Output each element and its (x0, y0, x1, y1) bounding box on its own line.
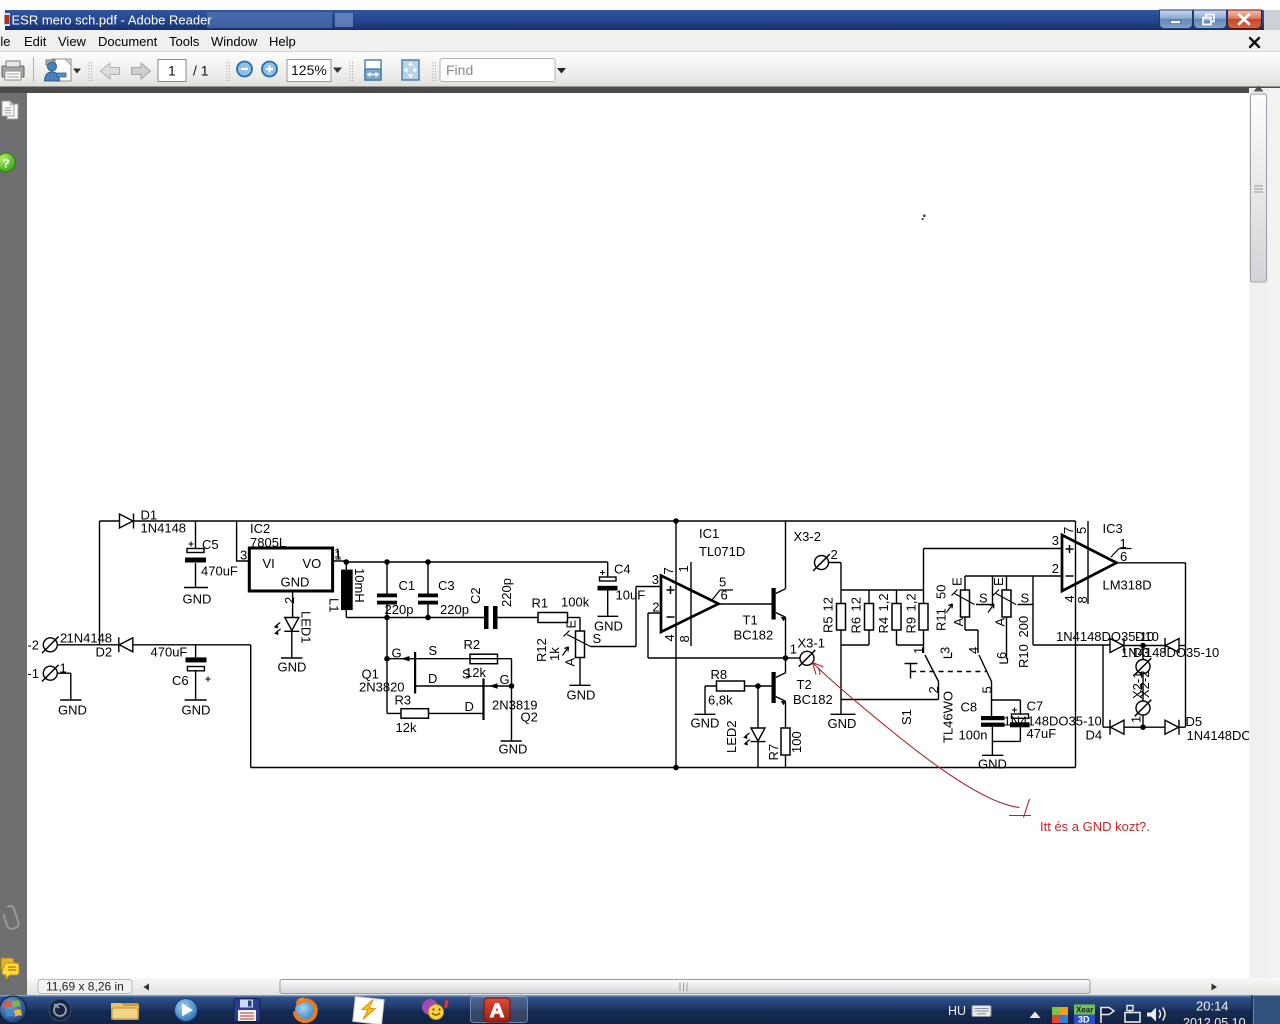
resistor R1 (538, 613, 580, 623)
node junction bridge top at X2-2 (1140, 643, 1146, 649)
svg-text:11,69 x 8,26 in: 11,69 x 8,26 in (46, 980, 124, 994)
svg-text:BC182: BC182 (734, 628, 774, 643)
wire IC1 output pin 6 (719, 603, 772, 605)
svg-text:1k: 1k (547, 647, 562, 661)
capacitor C7 (1010, 708, 1030, 742)
svg-text:S: S (1021, 591, 1030, 606)
resistor R3 (387, 659, 484, 719)
ground below C6 (185, 699, 207, 701)
svg-text:GND: GND (182, 703, 211, 718)
capacitor C1 (377, 562, 397, 618)
svg-text:VO: VO (303, 556, 322, 571)
svg-text:1N4148DO35-10: 1N4148DO35-10 (1004, 714, 1102, 729)
wire IC2 input stub (237, 521, 250, 561)
svg-text:2: 2 (1052, 561, 1059, 576)
wire IC1 power pins 7 and 4 (675, 521, 677, 768)
svg-text:GND: GND (567, 688, 596, 703)
svg-text:LM318D: LM318D (1103, 578, 1152, 593)
svg-text:C7: C7 (1027, 699, 1044, 714)
svg-text:20:14: 20:14 (1196, 999, 1229, 1014)
terminal X1-1 (42, 665, 71, 700)
wire IC3 pins 5 and 8 stub (1087, 521, 1089, 604)
svg-text:470uF: 470uF (201, 564, 238, 579)
document area (0, 93, 27, 995)
svg-text:10mH: 10mH (352, 568, 367, 603)
svg-text:2012.05.10: 2012.05.10 (1183, 1016, 1246, 1024)
wire bridge left edge (1102, 645, 1104, 727)
svg-text:T2: T2 (797, 677, 812, 692)
resistor R4 (892, 590, 924, 645)
svg-text:X3-2: X3-2 (794, 529, 821, 544)
svg-text:R6: R6 (849, 617, 864, 634)
svg-text:S1: S1 (899, 709, 914, 725)
svg-text:1: 1 (790, 642, 797, 657)
svg-text:View: View (58, 34, 87, 49)
svg-text:E: E (564, 620, 579, 629)
capacitor C2 (484, 606, 538, 629)
svg-text:100: 100 (789, 731, 804, 753)
wire X3-2 to divider rail (829, 563, 842, 591)
svg-text:12: 12 (849, 597, 864, 611)
svg-text:4: 4 (662, 634, 677, 641)
svg-text:1N4148: 1N4148 (141, 521, 187, 536)
transistor T1 BC182 (772, 521, 786, 658)
wire IC2 output pin 1 (333, 561, 347, 570)
trimmer R10 (988, 576, 1016, 659)
svg-text:D2: D2 (96, 645, 113, 660)
svg-text:1,2: 1,2 (876, 593, 891, 611)
wire Q1 source to Q2 gate node (511, 659, 513, 686)
svg-text:T1: T1 (743, 613, 758, 628)
svg-text:R1: R1 (532, 596, 549, 611)
svg-text:Itt és a GND kozt?.: Itt és a GND kozt?. (1040, 819, 1150, 834)
diode D4 (1110, 720, 1124, 735)
wire R11 wiper to pin2 rail (976, 576, 993, 605)
svg-text:A: A (993, 618, 1008, 627)
svg-text:E: E (991, 577, 1006, 586)
vertical scrollbar (1249, 88, 1268, 978)
svg-text:R5: R5 (821, 616, 836, 633)
node junction C1 bottom (384, 615, 390, 621)
diode D3 (1110, 638, 1124, 653)
wire R11 bottom to switch contact 4 (965, 617, 978, 653)
wire divider top rail (841, 589, 924, 591)
transistor T2 BC182 (772, 658, 786, 728)
diode D5 (1165, 720, 1179, 735)
wire node to X3-1 terminal (786, 657, 801, 659)
svg-text:7805L: 7805L (250, 535, 286, 550)
svg-text:X3-1: X3-1 (798, 636, 825, 651)
diode D1 (120, 514, 134, 529)
inductor L1 (341, 570, 353, 618)
ground below R8 (695, 713, 716, 715)
svg-text:G: G (392, 646, 402, 661)
ground below Q2 (501, 740, 522, 742)
node junction Q2 gate (509, 683, 515, 689)
svg-text:GND: GND (278, 660, 307, 675)
terminal X1-2 (42, 637, 119, 654)
svg-text:S: S (429, 643, 438, 658)
terminal X3-1 (799, 650, 816, 667)
wire D10 to output edge (1179, 645, 1186, 647)
node junction IC1 pin 4 at bottom rail (673, 765, 679, 771)
wire IC2 ground pin 2 stub (292, 591, 294, 618)
node junction at C1 top (384, 559, 390, 565)
svg-text:1: 1 (334, 546, 341, 561)
ground below C4 (598, 615, 619, 617)
svg-text:3: 3 (938, 647, 953, 654)
resistor R6 (841, 590, 874, 645)
node junction bridge bottom at X2-1 (1140, 724, 1146, 730)
node junction IC1 supply on +V rail (673, 518, 679, 524)
ground below LED1 (281, 657, 303, 659)
svg-text:200: 200 (1016, 616, 1031, 638)
wire switch pole 1 return to ground line (841, 699, 939, 701)
svg-text:12k: 12k (396, 720, 417, 735)
capacitor C4 (598, 562, 618, 616)
svg-text:3: 3 (1052, 533, 1059, 548)
svg-text:50: 50 (934, 585, 949, 599)
svg-text:8: 8 (677, 635, 692, 642)
pin stub IC1 pins 5/6 (712, 590, 733, 600)
pin stub IC3 pins 1/6 (1111, 549, 1132, 558)
svg-text:220p: 220p (499, 578, 514, 607)
svg-text:R9: R9 (904, 617, 919, 634)
svg-text:GND: GND (978, 757, 1007, 772)
trimmer R11 (947, 576, 975, 617)
svg-text:2: 2 (652, 600, 659, 615)
status bar (27, 978, 1280, 995)
svg-text:1: 1 (60, 661, 67, 676)
svg-text:R3: R3 (395, 693, 412, 708)
svg-text:1: 1 (168, 63, 176, 79)
tiny ink speck on page (922, 214, 926, 220)
wire +V top rail (100, 520, 1076, 522)
svg-text:6: 6 (1120, 549, 1127, 564)
svg-text:2: 2 (831, 547, 838, 562)
svg-text:?: ? (2, 157, 9, 171)
svg-text:125%: 125% (291, 62, 327, 78)
resistor R8 (705, 681, 772, 714)
svg-text:A: A (951, 618, 966, 627)
node junction R8 / T2 base / LED2 (755, 683, 761, 689)
ground below C8 C7 (982, 754, 1004, 756)
svg-text:VI: VI (263, 556, 275, 571)
sidebar icons (0, 101, 19, 979)
svg-text:3: 3 (240, 548, 247, 563)
capacitor C5 (185, 521, 206, 587)
LED LED1 (274, 618, 300, 659)
toolbar icons (2, 57, 566, 82)
ground below R5 (831, 713, 856, 715)
svg-text:GND: GND (828, 716, 857, 731)
svg-text:C5: C5 (202, 537, 219, 552)
svg-text:IC1: IC1 (699, 526, 719, 541)
svg-text:S: S (979, 591, 988, 606)
svg-text:R8: R8 (711, 667, 728, 682)
JFET Q1 2N3820 (384, 618, 511, 694)
svg-text:D4: D4 (1086, 728, 1103, 743)
svg-text:2: 2 (926, 686, 941, 693)
svg-text:IC3: IC3 (1103, 521, 1123, 536)
svg-text:Q2: Q2 (521, 710, 538, 725)
svg-text:6: 6 (994, 652, 1009, 659)
svg-text:8: 8 (1075, 596, 1090, 603)
wire switch pole 2 to C8 (992, 700, 1021, 716)
svg-text:X2-1: X2-1 (1130, 672, 1145, 699)
svg-text:TL46WO: TL46WO (941, 691, 956, 743)
svg-text:D5: D5 (1186, 714, 1203, 729)
svg-text:A: A (563, 658, 578, 667)
svg-text:D: D (428, 671, 437, 686)
switch S1 contact 3 stub (944, 653, 952, 658)
svg-text:LED1: LED1 (299, 611, 314, 644)
wire D5 to output edge (1179, 726, 1186, 728)
svg-text:R4: R4 (876, 617, 891, 634)
wire bridge bottom segments (1103, 726, 1165, 728)
svg-text:1: 1 (1129, 716, 1144, 723)
svg-text:R11: R11 (934, 608, 949, 631)
wire +5V rail (346, 561, 607, 563)
svg-text:100k: 100k (561, 595, 590, 610)
svg-text:D10: D10 (1135, 629, 1159, 644)
svg-text:C6: C6 (172, 673, 189, 688)
svg-text:3: 3 (652, 572, 659, 587)
svg-text:220p: 220p (440, 602, 469, 617)
svg-text:GND: GND (281, 575, 310, 590)
svg-text:C8: C8 (961, 700, 978, 715)
svg-text:C3: C3 (438, 578, 455, 593)
svg-text:1,2: 1,2 (904, 593, 919, 611)
svg-text:D3: D3 (1133, 645, 1150, 660)
svg-text:Help: Help (269, 34, 296, 49)
svg-text:1N4148: 1N4148 (67, 631, 113, 646)
svg-text:Window: Window (211, 34, 258, 49)
svg-text:5: 5 (1074, 527, 1089, 534)
wire IC3 pin 2 feedback rail (965, 575, 1062, 577)
wire left drop from D1 anode to input node (99, 521, 101, 645)
svg-text:R10: R10 (1016, 644, 1031, 668)
svg-text:GND: GND (58, 703, 87, 718)
op-amp IC1 TL071D (661, 576, 719, 633)
switch S1 pole 2 (979, 655, 992, 700)
svg-text:2: 2 (282, 597, 297, 604)
resistor R9 (919, 549, 928, 654)
svg-text:470uF: 470uF (151, 645, 188, 660)
diode D10 (1165, 638, 1179, 653)
wire IC3 output pin 6 (1117, 563, 1186, 727)
svg-text:1: 1 (676, 565, 691, 572)
trimmer R12 (563, 618, 591, 686)
node junction C3 bottom (425, 615, 431, 621)
switch S1 contact 6 stub (1000, 658, 1008, 663)
diode D2 (119, 637, 251, 652)
svg-text:10uF: 10uF (616, 588, 646, 603)
wire ground bottom rail (251, 645, 1076, 768)
wire IC1 pins 1 and 8 stub (690, 562, 692, 646)
svg-text:ESR mero sch.pdf - Adobe Reade: ESR mero sch.pdf - Adobe Reader (12, 13, 213, 28)
capacitor C3 (418, 562, 438, 618)
ground below R12 (570, 684, 591, 686)
svg-text:File: File (0, 34, 10, 49)
svg-text:Document: Document (98, 34, 158, 49)
svg-text:Xear: Xear (1076, 1006, 1093, 1015)
svg-text:E: E (950, 577, 965, 586)
wire IC3 pin 3 to R9 (924, 548, 1063, 550)
svg-text:R7: R7 (766, 744, 781, 761)
svg-text:LED2: LED2 (724, 720, 739, 753)
svg-text:4: 4 (966, 647, 981, 654)
svg-text:Find: Find (446, 62, 473, 78)
svg-text:IC2: IC2 (250, 521, 270, 536)
wire IC3 power pins 7 and 4 (1075, 521, 1077, 768)
op-amp IC3 LM318D (1062, 535, 1117, 591)
svg-text:GND: GND (499, 742, 528, 757)
svg-text:C4: C4 (614, 562, 631, 577)
wire R12 wiper to IC1 pin 3 (591, 587, 662, 647)
node junction at C3 top (425, 559, 431, 565)
svg-text:TL071D: TL071D (699, 544, 745, 559)
JFET Q2 2N3819 (415, 679, 511, 741)
terminal X2-1 (1135, 674, 1152, 728)
svg-text:D: D (465, 699, 474, 714)
svg-text:GND: GND (594, 619, 623, 634)
node junction at L1 top (344, 559, 350, 565)
node junction X3-1 / T1 emitter / T2 collector / feedback (783, 655, 789, 661)
resistor R7 (781, 728, 790, 768)
switch S1 pole 1 (925, 655, 939, 700)
ground below C5 (184, 587, 208, 589)
svg-text:Tools: Tools (169, 34, 200, 49)
svg-text:6,8k: 6,8k (708, 693, 733, 708)
svg-text:1: 1 (911, 647, 926, 654)
svg-text:R2: R2 (464, 637, 481, 652)
switch S1 actuator link (905, 664, 987, 679)
svg-text:GND: GND (183, 592, 212, 607)
svg-text:GND: GND (691, 716, 720, 731)
wire bridge top segments (1124, 645, 1165, 647)
terminal X3-2 (813, 554, 830, 571)
LED LED2 (743, 686, 766, 768)
taskbar (0, 995, 1280, 1024)
svg-text:C2: C2 (468, 587, 483, 604)
svg-text:220p: 220p (385, 602, 414, 617)
ground below X1-1 (60, 699, 81, 701)
voltage regulator IC2 7805L (249, 548, 332, 591)
svg-text:100n: 100n (959, 728, 988, 743)
svg-text:6: 6 (721, 588, 728, 603)
capacitor C8 (981, 716, 1020, 755)
svg-text:S: S (462, 667, 471, 682)
svg-text:7: 7 (661, 567, 676, 574)
svg-text:L1: L1 (327, 598, 342, 612)
capacitor C6 (186, 645, 211, 700)
wire R10 wiper to pin2 rail and bridge (1018, 576, 1111, 645)
svg-text:5: 5 (980, 686, 995, 693)
svg-text:/ 1: / 1 (193, 63, 209, 79)
svg-text:G: G (500, 672, 510, 687)
annotation red arrow curve (813, 663, 1032, 818)
svg-text:3D: 3D (1078, 1015, 1090, 1024)
svg-text:12: 12 (821, 597, 836, 611)
svg-text:Edit: Edit (24, 34, 47, 49)
svg-text:C1: C1 (399, 578, 416, 593)
wire IC1 pin 2 feedback to X3-1 node (648, 613, 786, 658)
terminal X2-2 (1135, 646, 1152, 675)
resistor R2 (470, 654, 498, 664)
svg-text:HU: HU (948, 1004, 966, 1018)
wire oscillator mid rail (346, 617, 484, 619)
resistor R5 (837, 590, 846, 714)
svg-text:BC182: BC182 (793, 692, 833, 707)
